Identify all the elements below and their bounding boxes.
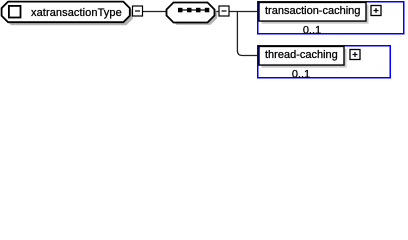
svg-text:xatransactionType: xatransactionType: [31, 7, 122, 19]
svg-text:0..1: 0..1: [292, 69, 310, 81]
svg-text:0..1: 0..1: [303, 25, 321, 37]
svg-text:thread-caching: thread-caching: [265, 49, 338, 61]
svg-text:transaction-caching: transaction-caching: [265, 5, 360, 17]
